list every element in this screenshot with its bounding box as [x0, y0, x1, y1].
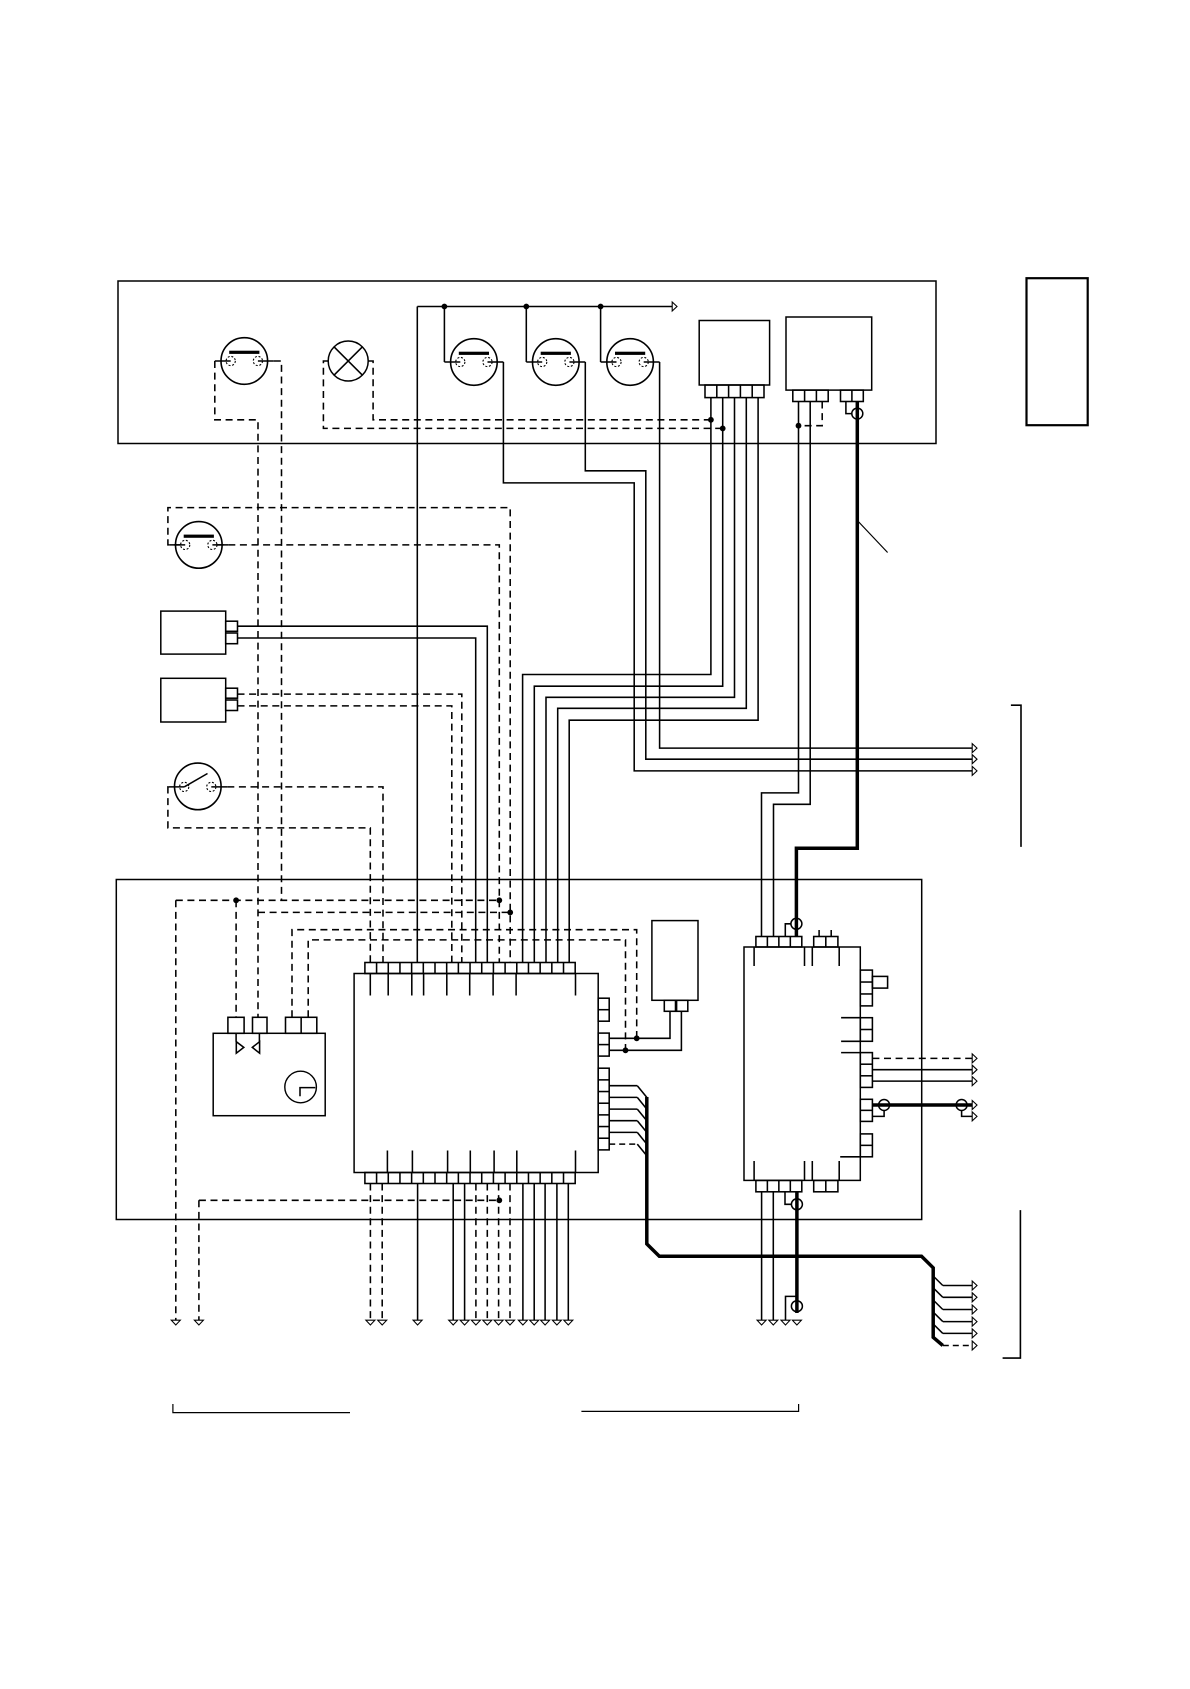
control unit right pins B [598, 1033, 609, 1056]
drop wire x545.1 [544, 1184, 546, 1321]
fan wire 3 [933, 1300, 943, 1310]
arrow dashed output [972, 1054, 977, 1063]
dashed wire relay pin3 to fuse net [292, 930, 637, 1039]
gauge G5 (spare gauge) [176, 522, 223, 569]
arrow drop x370.4 [366, 1320, 375, 1325]
dashed wire G5 right [217, 545, 500, 963]
fuse F1 pins [664, 1000, 675, 1011]
U2 right pins R6-R8 [860, 1053, 872, 1088]
dashed left drop wire 2 [198, 1200, 200, 1320]
dashed drop wire x510.0 [509, 1184, 511, 1321]
sensor S1 pins [226, 621, 238, 631]
gauge G1 (fuel gauge) [221, 338, 268, 385]
connector C2 body [786, 317, 872, 390]
fuse F1 body [652, 921, 698, 1001]
bus vertical wire down to control unit [416, 307, 418, 963]
harness wire 2 [609, 1096, 637, 1098]
arrow drop x475.9 [471, 1320, 480, 1325]
wire bus to gauge C [600, 307, 602, 363]
ring terminal bottom 1 [791, 1199, 802, 1210]
junction G5-left / relay pin2 wire [507, 910, 513, 916]
output wire 2 [872, 1069, 972, 1071]
U2 right pins R1-R3 [860, 970, 872, 1006]
switch SW body [175, 763, 222, 810]
U2 top pin comb B [814, 937, 838, 948]
arrow drop x534.2 [530, 1320, 539, 1325]
hook U2 bottom pin3 to ring [785, 1192, 791, 1205]
arrow left drop 1 [171, 1320, 180, 1325]
thick battery wire from C2 pin5 [796, 402, 857, 937]
junction box U2 body [744, 947, 860, 1180]
engine compartment enclosure [116, 880, 921, 1220]
arrow left drop 2 [194, 1320, 203, 1325]
junction lamp-left to connector pin2 [720, 426, 726, 432]
harness wire 4 [609, 1120, 637, 1122]
arrow fan 2 [972, 1293, 977, 1302]
dashed wire lamp right [368, 361, 711, 420]
thick harness bundle [647, 1097, 943, 1346]
U2 right pins R4-R5 [860, 1018, 872, 1042]
gauge A (temp gauge) [451, 339, 498, 386]
harness wire 5 [609, 1131, 637, 1133]
bus arrow [672, 302, 677, 311]
U3 pin 1 [228, 1017, 244, 1033]
arrow drop x487.3 [483, 1320, 492, 1325]
junction G5-right / panel net [496, 897, 502, 903]
U2 top stubs [818, 930, 820, 937]
control unit right pins A [598, 998, 609, 1021]
arrow thick ground [792, 1320, 801, 1325]
ring terminal at junction box top [791, 918, 802, 929]
power bus wire [417, 306, 672, 308]
wire fuse pin1 to unit [609, 1011, 670, 1038]
U2 internal ticks top [753, 947, 755, 966]
U3 diode symbol left [258, 1033, 260, 1041]
wire C1 pin1 to control unit [523, 398, 711, 963]
arrow drop x568.3 [564, 1320, 573, 1325]
dashed drop wire x498.6 [498, 1184, 500, 1321]
control unit bottom internal ticks [386, 1151, 388, 1173]
U3 clock symbol [285, 1071, 317, 1103]
fan wire 6 dashed [943, 1345, 972, 1347]
U2 tick R6 [841, 1052, 860, 1054]
control unit body [354, 974, 598, 1173]
dashed wire S2 pin2 [238, 706, 452, 963]
bracket right upper [1011, 705, 1021, 847]
fan wire 1 [933, 1276, 943, 1286]
wire gauge A right to arrow [503, 362, 972, 771]
dashed output wire [872, 1057, 972, 1059]
drop wire x534.2 [533, 1184, 535, 1321]
arrow drop x510.0 [506, 1320, 515, 1325]
wire C1 pin3 to control unit [546, 398, 735, 963]
arrow hook output [972, 1112, 977, 1121]
hook wire ring to arrow [962, 1111, 973, 1117]
dashed wire SW left [168, 787, 370, 963]
dashed riser relay pin1 [235, 900, 237, 1017]
harness wire 3 [609, 1108, 637, 1110]
arrow U2 bottom pin1 [757, 1320, 766, 1325]
bracket bottom right [581, 1404, 798, 1411]
output wire 3 [872, 1080, 972, 1082]
sensor S2 body [161, 678, 226, 722]
arrow U2 bottom pin2 [769, 1320, 778, 1325]
arrow drop x522.9 [518, 1320, 527, 1325]
connector C1 pin row [705, 385, 764, 398]
wire bus to gauge A [443, 307, 445, 363]
wire S1 pin1 [238, 626, 488, 962]
U2 right extra box top [872, 976, 887, 988]
junction C2 pin1/pin3 [796, 423, 802, 429]
connector C2 pin row A [793, 390, 828, 401]
control unit top internal ticks [369, 974, 371, 996]
arrow fan 4 [972, 1317, 977, 1326]
dashed drop wire x487.3 [486, 1184, 488, 1321]
junction relay pin1 riser [233, 897, 239, 903]
junction pin3 net [634, 1035, 640, 1041]
harness wire 1 [609, 1085, 637, 1087]
U2 right pins R11-R12 [860, 1134, 872, 1157]
sensor S1 body [161, 611, 226, 654]
wire gauge C right to arrow [660, 362, 973, 748]
ring terminal left [879, 1100, 890, 1111]
dashed wire relay pin4 to fuse net [308, 940, 625, 1050]
junction lamp-right to connector pin1 [708, 417, 714, 423]
fan wire 5 [933, 1324, 943, 1334]
wire C2 pin2 to junction box pin2 [774, 402, 811, 937]
U2 tick R12 [840, 1156, 860, 1158]
dashed wire G1 left / relay pin2 net [215, 361, 258, 1017]
bus junction node 2 [523, 304, 529, 310]
dashed wire relay pin2 horizontal [258, 911, 510, 913]
drop wire x453.2 [452, 1184, 454, 1321]
dashed drop wire x370.4 [369, 1184, 371, 1321]
ring terminal on thick wire top [852, 408, 863, 419]
hook wire R10 to ring [872, 1111, 884, 1117]
harness wire 6 dashed [609, 1143, 637, 1145]
arrow hook bottom [781, 1320, 790, 1325]
U2 bottom pin comb A [756, 1180, 802, 1191]
thick output wire [872, 1103, 972, 1107]
ring terminal right [956, 1100, 967, 1111]
wire C1 pin4 to control unit [558, 398, 747, 963]
arrow fan 1 [972, 1281, 977, 1290]
U3 pins 3-4 [286, 1017, 317, 1033]
U2 internal ticks bottom [753, 1161, 755, 1180]
U3 diode symbol right [235, 1033, 237, 1041]
wire bus to gauge B [525, 307, 527, 363]
arrow thick output [972, 1101, 977, 1110]
arrow fan 6 [972, 1341, 977, 1350]
dashed drop wire x382.2 [381, 1184, 383, 1321]
dashed wire G1 right [274, 361, 282, 900]
legend box (top right) [1027, 278, 1088, 425]
indicator lamp L1 [328, 341, 368, 381]
U2 top pin comb A [756, 937, 802, 948]
wire C2 pin1 to junction box pin1 [762, 402, 799, 937]
timer relay U3 body [213, 1033, 325, 1115]
arrow fan 3 [972, 1305, 977, 1314]
arrow gauge A wire [972, 766, 977, 775]
bus junction node 1 [442, 304, 448, 310]
arrow fan 5 [972, 1329, 977, 1338]
U2 bottom pin comb B [814, 1180, 838, 1191]
control unit right pins C [598, 1068, 609, 1150]
instrument panel (top enclosure) [118, 281, 936, 444]
drop wire x417.6 [417, 1184, 419, 1321]
wire C1 pin2 to control unit [534, 398, 722, 963]
arrow drop x464.6 [460, 1320, 469, 1325]
arrow drop x545.1 [541, 1320, 550, 1325]
dashed ground link wire [199, 1199, 499, 1201]
dashed wire lamp left [323, 361, 722, 428]
wire fuse pin2 to unit [609, 1011, 681, 1050]
junction ground link [496, 1197, 502, 1203]
U2 right pins R9-R10 [860, 1099, 872, 1121]
dashed drop wire x475.9 [475, 1184, 477, 1321]
arrow drop x382.2 [378, 1320, 387, 1325]
U2 tick R5 [841, 1040, 860, 1042]
drop wire x568.3 [567, 1184, 569, 1321]
arrow drop x417.6 [413, 1320, 422, 1325]
bus junction node 3 [598, 304, 604, 310]
junction pin4 net [623, 1047, 629, 1053]
hook wire U2 top pin3 to ring [785, 924, 791, 937]
thick ground wire down [795, 1192, 799, 1313]
arrow drop x453.2 [449, 1320, 458, 1325]
dashed wire G5 left via loop top [168, 508, 510, 963]
bracket bottom left [173, 1404, 350, 1413]
bracket right lower [1003, 1210, 1021, 1358]
U2 tick R4 [841, 1017, 860, 1019]
arrow drop x498.6 [494, 1320, 503, 1325]
wire C2 pin4 hook to ring [846, 402, 852, 414]
dashed wire SW right [227, 787, 383, 963]
drop wire x522.9 [522, 1184, 524, 1321]
hook wire to left arrow [786, 1296, 797, 1320]
drop wire x556.9 [556, 1184, 558, 1321]
drop wire x464.6 [464, 1184, 466, 1321]
arrow drop x556.9 [552, 1320, 561, 1325]
gauge B (oil gauge) [533, 339, 580, 386]
dashed wire C2 pin3 [799, 402, 823, 426]
dashed net wire to relay pin1 [176, 899, 500, 901]
arrow output 3 [972, 1077, 977, 1086]
fan wire 4 [933, 1312, 943, 1322]
gauge C (volt gauge) [607, 339, 654, 386]
connector C1 body [699, 321, 769, 386]
callout leader line [858, 521, 888, 553]
fan wire 2 [933, 1288, 943, 1298]
arrow gauge B wire [972, 755, 977, 764]
dashed wire S2 pin1 [238, 694, 462, 962]
wire U2 bottom pin1 [761, 1192, 763, 1321]
arrow output 2 [972, 1065, 977, 1074]
wire U2 bottom pin2 [772, 1192, 774, 1321]
connector C2 pin row B [841, 390, 864, 401]
wire gauge B right to arrow [585, 362, 972, 759]
wire S1 pin2 [238, 638, 476, 963]
control unit bottom pin comb [365, 1173, 575, 1184]
U3 pin 2 [253, 1017, 268, 1033]
wire C1 pin5 to control unit [569, 398, 758, 963]
dashed left drop wire 1 [175, 900, 177, 1320]
ring terminal bottom 2 [791, 1301, 802, 1312]
arrow gauge C wire [972, 744, 977, 753]
control unit top pin comb [365, 963, 575, 974]
sensor S2 pins [226, 688, 238, 698]
